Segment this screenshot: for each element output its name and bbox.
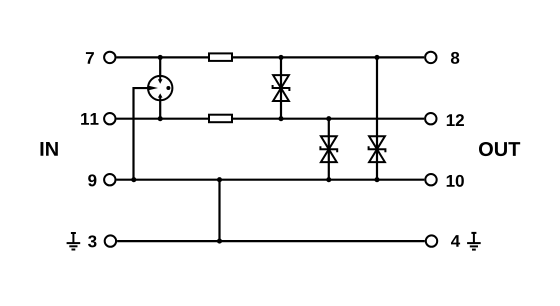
terminal 10 bbox=[425, 174, 436, 185]
junction node on line 11 at gas tube bbox=[158, 116, 163, 121]
pin label 4 bbox=[451, 235, 460, 247]
junction node D2 bottom bbox=[326, 177, 331, 182]
ground symbol left (terminal 3) bbox=[67, 233, 81, 250]
junction node on line 7 at gas tube bbox=[158, 55, 163, 60]
wire L1 top line from terminal 7 to terminal 8 bbox=[117, 56, 425, 58]
wire V5 diode D2 branch (line 12 to line 10) bbox=[328, 119, 330, 180]
wire L4 ground line from terminal 3 to terminal 4 bbox=[117, 240, 425, 242]
wire V6 diode D3 branch (line 8 to line 10) bbox=[376, 57, 378, 179]
wire V2 gas tube third electrode down to line 9 bbox=[134, 88, 150, 180]
wire L2 line from terminal 11 to terminal 12 bbox=[117, 118, 425, 120]
pin label 8 bbox=[451, 52, 459, 64]
label OUT bbox=[479, 142, 520, 156]
suppressor diode D2 bbox=[320, 136, 337, 162]
resistor R2 bbox=[209, 115, 232, 123]
junction node V2 on line 9 bbox=[131, 177, 136, 182]
terminal 3 bbox=[105, 235, 116, 246]
junction node D1 top bbox=[278, 55, 283, 60]
suppressor diode D3 bbox=[369, 136, 386, 162]
terminal 7 bbox=[104, 52, 115, 63]
junction node D1 bottom bbox=[278, 116, 283, 121]
pin label 9 bbox=[88, 174, 96, 186]
pin label 12 bbox=[447, 114, 464, 126]
wire V3 from line 9 down to ground line bbox=[218, 180, 220, 241]
junction node V3 on line 9 bbox=[217, 177, 222, 182]
gas discharge tube F1 bbox=[148, 76, 172, 101]
junction node D2 top bbox=[326, 116, 331, 121]
pin label 10 bbox=[447, 175, 464, 187]
wire V4 diode D1 branch (line 7 to line 11) bbox=[280, 57, 282, 118]
wire L3 line from terminal 9 to terminal 10 bbox=[117, 179, 425, 181]
label IN bbox=[41, 142, 58, 156]
terminal 11 bbox=[104, 113, 115, 124]
ground symbol right (terminal 4) bbox=[467, 233, 481, 250]
junction node D3 bottom bbox=[374, 177, 379, 182]
terminal 4 bbox=[426, 235, 437, 246]
wire V1 vertical through gas discharge tube (line 7 to line 11) bbox=[159, 57, 161, 118]
terminal 9 bbox=[104, 174, 115, 185]
pin label 7 bbox=[86, 52, 94, 64]
pin label 3 bbox=[88, 235, 96, 247]
terminal 12 bbox=[425, 113, 436, 124]
pin label 11 bbox=[81, 113, 98, 125]
junction node V3 on ground line bbox=[217, 239, 222, 244]
suppressor diode D1 bbox=[273, 75, 290, 101]
junction node D3 top bbox=[374, 55, 379, 60]
resistor R1 bbox=[209, 53, 232, 61]
terminal 8 bbox=[425, 52, 436, 63]
